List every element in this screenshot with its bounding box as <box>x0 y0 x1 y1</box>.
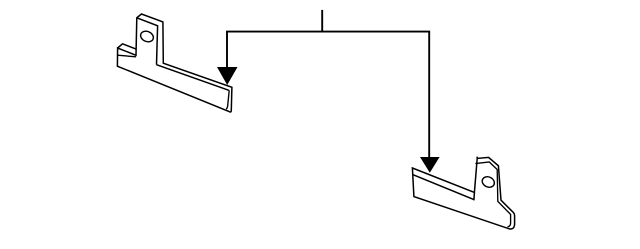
left bracket flange crease <box>118 55 137 57</box>
left bracket oval hole <box>139 29 155 43</box>
right bracket tab left edge lower segment <box>473 192 476 200</box>
left bracket main silhouette <box>117 14 231 112</box>
right bracket oval hole <box>480 175 496 189</box>
arrowhead right <box>420 157 440 173</box>
left bracket right-end inner edge with hook <box>226 90 229 109</box>
left bracket tab top-front edge <box>137 18 158 65</box>
right bracket outline <box>412 157 514 229</box>
right bracket strip top-back edge <box>412 174 474 199</box>
right bracket tab corner spike <box>476 157 478 159</box>
right bracket tab inner thickness line <box>475 162 510 227</box>
left bracket strip top-front band edge <box>157 65 230 91</box>
left bracket flange top-back edge <box>118 44 137 49</box>
arrowhead left <box>217 67 238 85</box>
leader wire with two drops <box>227 32 429 158</box>
leader stub line (top center) <box>321 10 323 33</box>
